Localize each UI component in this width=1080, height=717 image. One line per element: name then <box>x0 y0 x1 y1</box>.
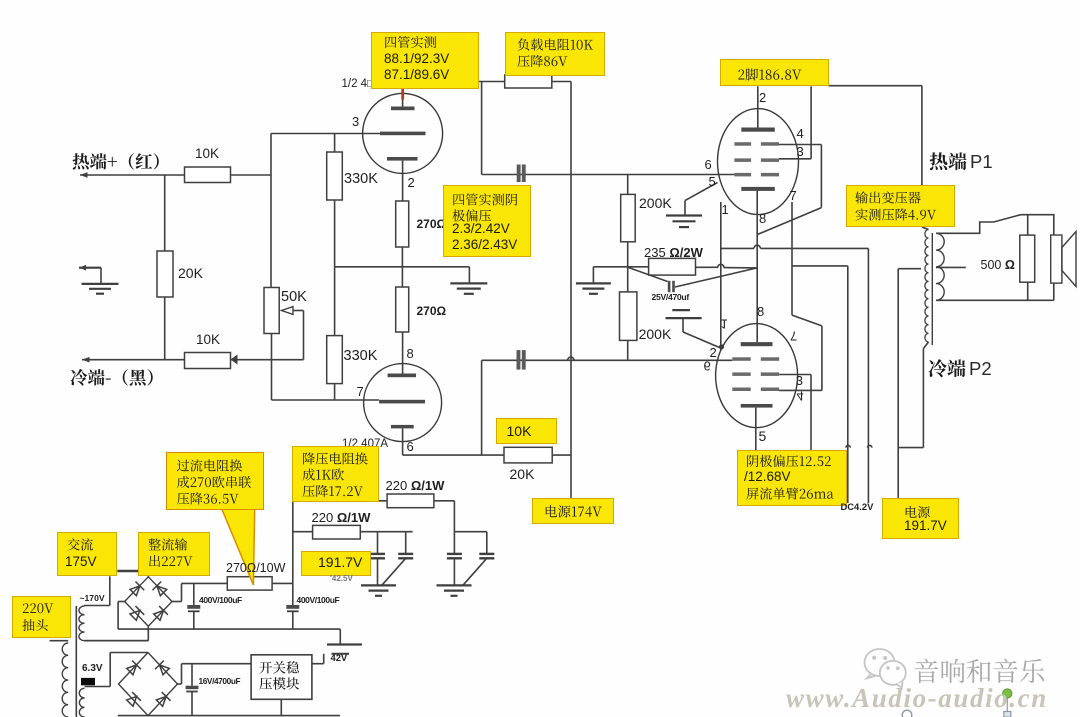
wire module ground <box>280 699 282 715</box>
annotation box 10K <box>496 418 557 444</box>
wire coupling upper (y174) <box>482 174 735 176</box>
wire cathode node (y267) <box>335 266 470 268</box>
resistor R9 load 10K <box>505 75 552 88</box>
annotation box pin2 voltage <box>720 59 829 86</box>
wire heater bus A (pin1) <box>720 202 722 350</box>
capacitor C7 film <box>447 553 462 555</box>
bridge rectifier D1-D4 <box>125 577 172 626</box>
bridge rectifier D5-D8 <box>119 653 178 716</box>
label P2 <box>928 359 965 377</box>
wire coupling top branch x481 <box>481 82 483 175</box>
wire cathode-follower output (y455) <box>403 454 504 456</box>
annotation box AC 175V <box>57 532 117 576</box>
transformer T2 mains primary 220V <box>50 640 69 642</box>
wire secondary centre tap <box>936 266 966 268</box>
annotation box supply 174V <box>532 498 614 524</box>
speaker LS1 <box>1051 235 1062 283</box>
wire V2 screen link <box>792 315 822 326</box>
capacitor C1 coupling upper <box>517 165 521 183</box>
wire AC link between boxes <box>117 570 138 572</box>
wire filter branch lower (y531) <box>293 531 313 533</box>
capacitor C5 400V/100uF <box>193 583 195 605</box>
annotation box 191.7V mid <box>301 551 371 576</box>
capacitor C4 bias electrolytic <box>672 309 690 311</box>
transformer T2 core <box>75 606 77 717</box>
triode U1a (1/2 407A upper) <box>363 93 443 173</box>
capacitor C3 25V/470uf <box>629 268 668 282</box>
label hot terminal <box>72 153 158 170</box>
wire bridge2 dc+ <box>178 683 182 685</box>
wire V1 screen bracket <box>779 144 821 146</box>
resistor R2 20K (input shunt) <box>164 175 166 251</box>
wire plate top bus (y85) <box>829 85 922 87</box>
label cold terminal <box>70 369 152 386</box>
capacitor C6 400V/100uF <box>292 583 294 605</box>
resistor R1 10K (input hot) <box>185 167 231 183</box>
resistor R13 500ohm <box>1027 215 1029 235</box>
capacitor C9 film <box>370 553 385 555</box>
wire heater bus B (pin7) <box>791 202 793 315</box>
resistor R8 20K output <box>504 447 552 463</box>
value labels <box>195 147 219 161</box>
wire upper filter caps <box>453 501 455 532</box>
triode U1b (1/2 407A lower) <box>364 364 442 442</box>
wire V1 cathode chain x757 <box>756 191 758 342</box>
wire V2 grid2 bus down <box>755 449 757 451</box>
remnant text under 191.7V box <box>330 575 353 583</box>
annotation box output transformer <box>846 185 956 227</box>
annotation texts cjk <box>385 36 436 48</box>
wire hot-input (热端+ line) <box>80 174 185 176</box>
wire filter branch upper (y501) <box>293 500 387 502</box>
label DC4.2V <box>841 502 874 512</box>
wire OPT feed taps <box>898 268 921 270</box>
wire secondary top lead <box>936 215 1054 235</box>
pin numbers <box>352 115 359 129</box>
wire 235ohm to cathode <box>696 266 719 268</box>
ground lower filter <box>377 558 379 585</box>
ground upper filter <box>453 558 455 585</box>
regulator module box <box>251 655 312 700</box>
resistor R10 200K (upper) <box>627 175 629 195</box>
capacitor C10 film <box>398 553 413 555</box>
capacitor C12 42V node <box>339 629 341 644</box>
resistor R16 220ohm/1W lower <box>313 525 361 539</box>
wire B+ drop x571 <box>570 82 572 498</box>
ground V1 pin5 <box>685 183 718 201</box>
callout pointer overcurrent box <box>222 509 255 586</box>
label P1 <box>930 152 967 170</box>
watermark site name <box>914 659 1044 683</box>
junction x571-y360 <box>568 357 574 360</box>
wire PSU bottom rail <box>118 715 340 717</box>
annotation box cathode bias small tubes <box>443 185 532 258</box>
resistor R15 220ohm/1W upper <box>387 494 434 508</box>
pentode V2 (output tube lower) <box>716 324 798 428</box>
wire filter node x292 <box>292 501 294 583</box>
annotation box dropper resistor <box>292 446 380 502</box>
transformer T2 mains 170V winding <box>109 576 111 605</box>
wire secondary bottom lead <box>936 299 1054 301</box>
wire module output <box>312 663 324 665</box>
annotation box measured plate voltages <box>371 32 479 90</box>
wire bridge1 dc+ <box>172 601 182 603</box>
capacitor C11 16V/4700uF <box>191 664 193 686</box>
resistor R4 330K (upper) <box>334 134 336 153</box>
ground bias node <box>592 267 594 283</box>
wire plate feed (y81) <box>479 81 505 83</box>
wire bridge1 ac top <box>147 571 149 577</box>
ground input <box>79 267 101 269</box>
transformer T1 output secondary <box>936 233 944 300</box>
regulator module label <box>260 661 299 673</box>
wire lower filter caps <box>377 532 379 554</box>
annotation box rectified 227V <box>138 532 210 576</box>
capacitor C2 coupling lower <box>517 350 521 370</box>
pentode V1 (output tube upper) <box>718 109 799 215</box>
resistor R3 10K (input cold) <box>185 353 231 369</box>
wire bias node (y267 right) <box>593 266 648 268</box>
wire grid bus upper (y133) <box>271 133 380 135</box>
wire coupling lower (y360) <box>482 359 733 361</box>
resistor R14 270ohm/10W <box>227 577 272 590</box>
transformer T2 6.3V winding <box>79 688 84 717</box>
watermark green pin <box>1006 697 1008 712</box>
resistor R11 235ohm 2W <box>649 258 696 275</box>
transformer T1 output primary <box>921 186 923 227</box>
wire grid bus lower (y400) <box>272 399 380 401</box>
resistor R7 270ohm (lower cathode) <box>401 267 403 287</box>
annotation box supply 191.7V <box>882 498 960 539</box>
watermark wechat icon <box>865 649 895 678</box>
resistor R6 270ohm (upper cathode) <box>396 201 409 247</box>
wire bridge1 ac bottom <box>147 626 149 641</box>
resistor R5 330K (lower) <box>334 267 336 336</box>
ground cathode node <box>468 267 470 283</box>
black mask mark <box>81 678 95 685</box>
annotation box 220V tap <box>12 596 71 639</box>
box texts latin <box>384 52 449 66</box>
wire bridge1 dc- <box>118 601 125 603</box>
capacitor C8 film <box>479 553 494 555</box>
potentiometer VR1 50K <box>264 288 279 334</box>
annotation box load resistor <box>505 32 605 76</box>
resistor R12 200K (lower) <box>627 267 629 292</box>
wire PSU B+ main (y583) <box>182 582 228 584</box>
wire PSU ground rail (y629) <box>118 628 340 630</box>
transformer T1 core <box>931 233 933 345</box>
red probe tick <box>401 89 404 100</box>
wire cold-input (冷端- line) <box>82 359 185 361</box>
annotation box cathode bias power tubes <box>737 450 847 506</box>
